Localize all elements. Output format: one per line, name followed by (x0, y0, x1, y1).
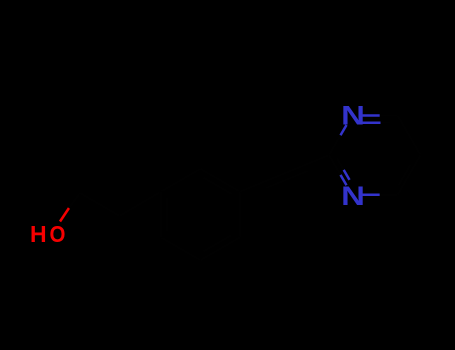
svg-text:O: O (50, 221, 66, 247)
pyrimidine bond N3-C4 blue half (361, 193, 380, 196)
benzene ring edge B-BL (161, 237, 201, 260)
svg-text:N: N (341, 182, 365, 212)
pyrimidine bond N1=C6 dark half (380, 114, 398, 117)
benzene inner double line T-TR (203, 178, 232, 194)
connector bond TR-M-C2 (styryl chain) (240, 155, 329, 192)
bond O-C1 red half (60, 208, 69, 222)
pyrimidine C2=N3 inner line dark half (337, 158, 344, 170)
pyrimidine bond C2=N3 blue half (341, 175, 347, 185)
pyrimidine bond C6-C5 (398, 116, 421, 156)
benzene ring edge BR-B (200, 237, 240, 260)
bond C1-C2' (80, 193, 120, 216)
pyrimidine C2=N3 inner line blue half (344, 170, 350, 180)
connector inner double line (266, 171, 308, 188)
benzene inner double line BL-TL (166, 197, 169, 232)
benzene inner double line B-BR (203, 235, 232, 251)
svg-text:N: N (341, 101, 365, 131)
pyrimidine N1=C6 inner line blue half (362, 121, 381, 124)
svg-text:H: H (30, 221, 47, 247)
pyrimidine bond C2-N1 dark half (329, 135, 341, 155)
bond C2'-ring TL (120, 192, 161, 216)
benzene ring edge T-TR (200, 169, 240, 192)
pyrimidine bond C4=C5 (398, 155, 421, 195)
pyrimidine bond C2=N3 dark half (329, 155, 341, 175)
pyrimidine bond N1=C6 blue half (361, 114, 380, 117)
pyrimidine C4=C5 inner line (399, 165, 411, 186)
pyrimidine bond N3-C4 dark half (380, 193, 398, 196)
benzene ring edge BL-TL (160, 192, 163, 238)
bond O-C1 dark half (69, 193, 80, 208)
benzene ring edge TL-T (161, 169, 201, 192)
pyrimidine N1=C6 inner line dark half (381, 121, 391, 124)
benzene ring edge TR-BR (239, 192, 242, 238)
pyrimidine bond C2-N1 blue half (341, 125, 347, 135)
